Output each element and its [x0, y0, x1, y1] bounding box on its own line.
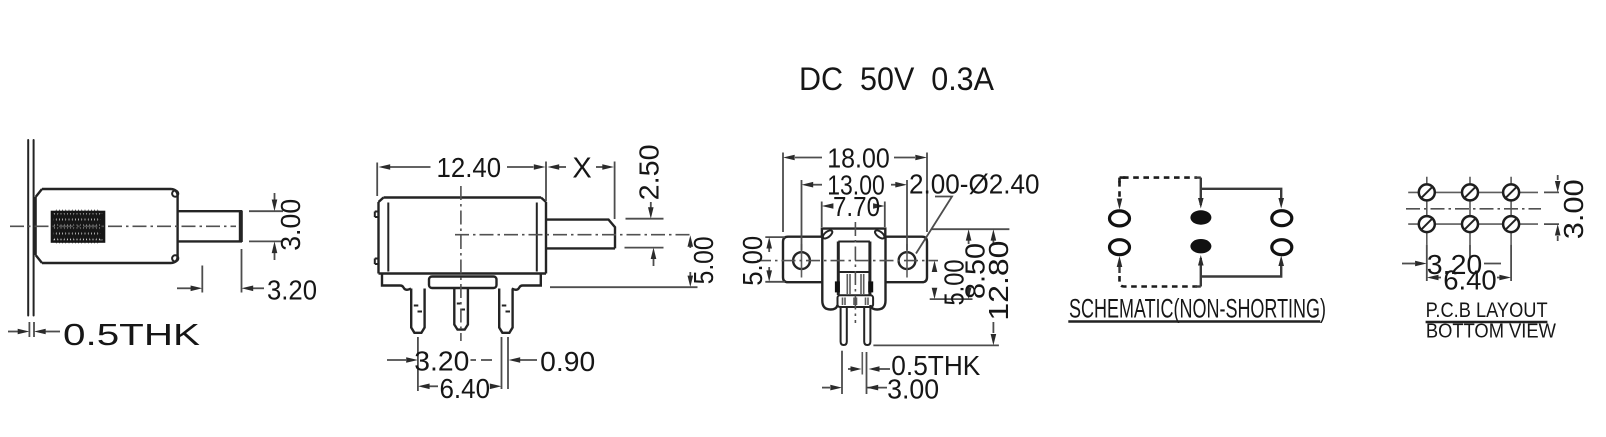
- dim 3.20 (view1): [177, 249, 317, 306]
- dashed frame left top stub: [1118, 181, 1121, 197]
- dim 2.00-O2.40 with leader: [909, 169, 1040, 254]
- dim 6.40 (view2): [418, 373, 502, 404]
- svg-text:12.80: 12.80: [983, 241, 1014, 321]
- dim 3.00 (pcb): [1544, 175, 1589, 241]
- dim 0.90 (view2): [508, 337, 595, 389]
- svg-text:5.00: 5.00: [737, 236, 768, 286]
- terminal pin 1: [411, 289, 424, 333]
- terminal wafer: [838, 295, 874, 307]
- dim X: [548, 153, 615, 220]
- dashed frame top: [1123, 176, 1197, 179]
- body corner notches: [172, 191, 178, 197]
- dim 12.80: [873, 229, 1014, 345]
- svg-text:0.90: 0.90: [540, 346, 595, 377]
- svg-text:7.70: 7.70: [833, 191, 880, 222]
- center block: [822, 229, 885, 237]
- bottom edge and feet: [379, 272, 547, 274]
- dim 13.00: [802, 170, 908, 251]
- common contact top (filled): [1190, 210, 1211, 224]
- dim 7.70: [822, 191, 885, 227]
- svg-text:2.50: 2.50: [634, 144, 665, 200]
- dim 5.00 right (view3): [930, 260, 973, 306]
- dim 8.50: [932, 229, 1010, 299]
- dim 3.20 (view2): [387, 337, 502, 391]
- dim 18.00: [783, 143, 927, 233]
- centerlines view2: [460, 186, 462, 341]
- centerlines view3: [757, 260, 938, 262]
- mounting holes: [793, 244, 915, 278]
- svg-text:3.00: 3.00: [275, 199, 306, 251]
- mounting ears: [783, 237, 822, 283]
- dim 5.00 left (view3): [737, 236, 785, 286]
- side tabs: [835, 281, 840, 292]
- dim 3.00 (view3): [822, 374, 939, 405]
- switch body side: [36, 189, 178, 263]
- terminal pin 3: [499, 289, 512, 333]
- common wire bottom: [1200, 258, 1202, 287]
- dim 12.40: [377, 152, 546, 201]
- dim 2.50: [625, 144, 665, 266]
- arrow into pin2 from below: [1117, 256, 1123, 267]
- svg-text:SCHEMATIC(NON-SHORTING): SCHEMATIC(NON-SHORTING): [1069, 294, 1326, 324]
- pin 1 contact (open): [1110, 211, 1130, 226]
- pin 4 contact (open): [1272, 240, 1292, 255]
- wire to pin 4: [1201, 262, 1281, 277]
- bracket plate: [28, 140, 33, 316]
- dim 3.00 (view1): [249, 193, 306, 260]
- svg-text:DC 50V 0.3A: DC 50V 0.3A: [799, 61, 995, 97]
- pcb pin right: [864, 307, 870, 345]
- actuator front: [546, 220, 615, 249]
- centerline view1: [10, 225, 236, 227]
- pin 2 contact (open): [1110, 240, 1130, 255]
- svg-text:3.00: 3.00: [887, 374, 939, 405]
- actuator shaft side: [178, 211, 242, 241]
- dim 0.5THK (view1): [8, 317, 200, 352]
- svg-text:0.5THK: 0.5THK: [63, 317, 200, 352]
- pads: [1419, 184, 1519, 232]
- svg-text:6.40: 6.40: [1443, 265, 1497, 296]
- wire to pin 3: [1201, 189, 1281, 201]
- arrow into pin1: [1117, 199, 1123, 210]
- body front: [375, 198, 546, 290]
- dim 0.5THK (view3): [842, 350, 981, 394]
- dashed frame left bottom + bottom: [1120, 276, 1198, 287]
- side tick marks: [375, 212, 379, 265]
- dim 6.40 (pcb): [1427, 245, 1511, 296]
- pcb pin left: [841, 307, 847, 345]
- svg-text:2.00-Ø2.40: 2.00-Ø2.40: [909, 169, 1040, 200]
- svg-text:5.00: 5.00: [688, 236, 719, 284]
- contact hatch block: [52, 212, 104, 242]
- terminal pin 2: [454, 288, 468, 330]
- pin roots: [847, 274, 863, 294]
- pad grid lines: [1406, 177, 1541, 245]
- svg-text:3.00: 3.00: [1558, 179, 1589, 239]
- pin 3 contact (open): [1272, 211, 1292, 226]
- svg-text:3.20: 3.20: [267, 275, 317, 306]
- corner top-left: [1120, 178, 1126, 183]
- corner slots: [822, 229, 834, 240]
- svg-text:P.C.B LAYOUT: P.C.B LAYOUT: [1426, 299, 1548, 322]
- inner housing: [838, 242, 870, 296]
- dim 3.20 (pcb): [1402, 245, 1501, 281]
- svg-text:12.40: 12.40: [437, 152, 502, 183]
- common contact bottom (filled): [1190, 239, 1211, 253]
- svg-text:3.20: 3.20: [414, 346, 469, 377]
- svg-text:X: X: [572, 153, 591, 185]
- common wire top: [1200, 178, 1202, 205]
- dim 5.00 (view2): [550, 235, 719, 287]
- svg-text:BOTTOM VIEW: BOTTOM VIEW: [1426, 321, 1556, 343]
- svg-text:6.40: 6.40: [440, 373, 491, 404]
